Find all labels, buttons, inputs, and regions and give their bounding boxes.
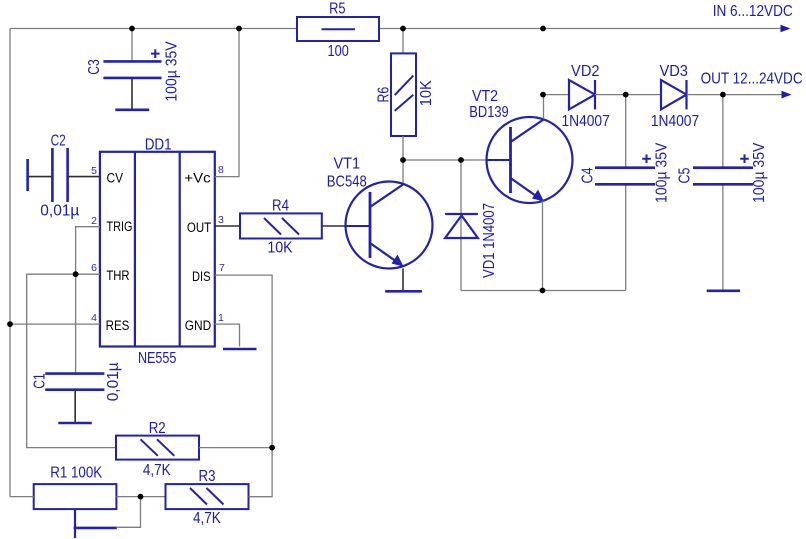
wire left rail	[9, 29, 11, 497]
wire GND	[215, 324, 240, 346]
svg-text:0,01µ: 0,01µ	[105, 362, 122, 401]
wire C5 bottom	[722, 184, 724, 289]
wire THR	[27, 274, 116, 447]
ground C1	[58, 422, 92, 425]
capacitor C5	[677, 142, 769, 203]
wire node to VT2 base	[403, 159, 487, 161]
ground C2	[26, 159, 29, 191]
svg-text:VD3: VD3	[659, 63, 688, 80]
diode VD3 1N4007	[651, 63, 699, 130]
wire C5 top	[722, 95, 724, 168]
wire diode row seg1	[543, 94, 569, 96]
resistor R5	[297, 0, 379, 59]
node C4 top	[623, 92, 629, 98]
wire VT2 collector	[543, 95, 545, 119]
node TRIG-THR	[73, 271, 79, 277]
svg-text:R6: R6	[376, 87, 393, 103]
svg-text:C5: C5	[677, 167, 694, 183]
node VD1 top	[458, 157, 464, 163]
wire R1 left	[10, 496, 34, 498]
svg-text:6: 6	[91, 262, 97, 274]
svg-text:10K: 10K	[267, 240, 293, 257]
wire DIS	[215, 275, 272, 497]
transistor Q1 VT1 BC548	[327, 155, 433, 268]
svg-text:7: 7	[219, 262, 225, 274]
wire VT2 emitter	[542, 201, 544, 291]
wire +Vc to top rail	[215, 29, 239, 177]
svg-text:100µ 35V: 100µ 35V	[164, 41, 181, 102]
svg-text:R2: R2	[149, 420, 166, 437]
svg-text:1N4007: 1N4007	[561, 113, 609, 130]
wire R4 to VT1 base	[322, 225, 346, 227]
diode VD1 1N4007	[445, 203, 498, 278]
capacitor C4	[580, 142, 671, 203]
svg-text:8: 8	[218, 164, 224, 176]
wire OUT to R4	[215, 225, 240, 227]
wire C4 bottom	[625, 184, 627, 290]
wire bottom rail	[461, 290, 626, 292]
wire R2 right	[199, 447, 272, 449]
svg-text:VD2: VD2	[571, 63, 600, 80]
wire C4 top	[625, 95, 627, 168]
svg-text:0,01µ: 0,01µ	[40, 203, 79, 220]
svg-text:BD139: BD139	[469, 104, 508, 121]
svg-text:1N4007: 1N4007	[651, 113, 699, 130]
svg-text:NE555: NE555	[138, 350, 177, 367]
wire VD1 vertical	[460, 160, 462, 291]
resistor R1 100K	[34, 465, 117, 539]
IC DD1 NE555	[100, 136, 215, 367]
node R1-R3	[138, 494, 144, 500]
svg-text:VT2: VT2	[472, 88, 498, 105]
wire R5 to R6	[402, 29, 404, 54]
resistor R2	[116, 420, 199, 479]
resistor R3	[166, 468, 249, 527]
svg-text:5: 5	[91, 165, 97, 177]
diode VD2 1N4007	[561, 63, 609, 130]
wire VT1 emitter	[402, 269, 404, 291]
node top-Vcc	[236, 26, 242, 32]
svg-text:BC548: BC548	[327, 174, 367, 191]
wire R1 wiper link	[117, 497, 141, 528]
svg-text:DIS: DIS	[192, 269, 211, 284]
node OUT arrow	[782, 91, 792, 99]
svg-text:CV: CV	[107, 171, 124, 186]
svg-text:OUT: OUT	[187, 220, 211, 235]
ground VT1 emitter	[385, 290, 422, 293]
svg-text:100: 100	[328, 43, 349, 60]
node top-R6	[400, 26, 406, 32]
svg-text:C2: C2	[51, 132, 66, 149]
svg-text:C1: C1	[31, 373, 48, 389]
wire R3 right	[249, 496, 273, 498]
wire diode row seg3	[687, 94, 784, 96]
svg-text:+Vc: +Vc	[184, 170, 210, 185]
node top-VT2	[540, 26, 546, 32]
node emitter bottom	[540, 288, 546, 294]
svg-text:THR: THR	[106, 268, 129, 283]
node R6-VT1-VT2	[400, 157, 406, 163]
svg-text:R5: R5	[329, 0, 345, 17]
node junction dots	[7, 26, 726, 500]
svg-text:100µ 35V: 100µ 35V	[653, 142, 670, 203]
svg-text:4,7K: 4,7K	[143, 462, 171, 479]
resistor R6	[376, 53, 435, 136]
wire top rail left	[10, 28, 297, 30]
capacitor C2	[29, 132, 100, 219]
capacitor C1	[31, 362, 121, 422]
svg-text:10K: 10K	[418, 80, 435, 106]
svg-text:2: 2	[91, 215, 97, 227]
svg-text:1: 1	[218, 312, 224, 324]
svg-text:R3: R3	[199, 468, 216, 485]
wire C1 top	[75, 274, 77, 373]
svg-text:VD1 1N4007: VD1 1N4007	[481, 203, 498, 278]
node C5 top	[720, 92, 726, 98]
svg-text:3: 3	[218, 214, 224, 226]
wire R1 to R3	[116, 496, 165, 498]
node IN arrow	[781, 25, 791, 33]
svg-text:VT1: VT1	[333, 155, 360, 172]
wire RES	[10, 323, 100, 325]
node R2-DIS	[269, 445, 275, 451]
svg-text:RES: RES	[106, 318, 130, 333]
ground GND pin	[223, 348, 257, 351]
wire diode row seg2	[595, 94, 661, 96]
svg-text:C4: C4	[580, 167, 597, 183]
wire top rail right	[379, 28, 782, 30]
svg-text:GND: GND	[185, 318, 212, 333]
ground C3	[115, 109, 149, 112]
wire VT1 collector	[402, 160, 404, 185]
wire TRIG	[76, 227, 100, 275]
node top-C3	[129, 26, 135, 32]
node RES rail	[7, 321, 13, 327]
resistor R4	[240, 198, 322, 257]
svg-text:C3: C3	[86, 59, 103, 75]
svg-text:R1 100K: R1 100K	[50, 465, 102, 482]
svg-text:4: 4	[91, 312, 97, 324]
svg-text:DD1: DD1	[145, 136, 172, 153]
ground C5	[707, 289, 740, 292]
svg-text:100µ 35V: 100µ 35V	[751, 142, 768, 203]
capacitor C3	[86, 29, 181, 110]
wire R6 bottom to node	[402, 136, 404, 160]
svg-text:OUT 12...24VDC: OUT 12...24VDC	[701, 70, 803, 87]
transistor Q2 VT2 BD139	[469, 88, 572, 203]
svg-text:TRIG: TRIG	[107, 219, 133, 234]
node diode row left	[540, 92, 546, 98]
svg-text:4,7K: 4,7K	[193, 510, 221, 527]
svg-text:R4: R4	[272, 198, 289, 215]
svg-text:IN 6...12VDC: IN 6...12VDC	[713, 3, 793, 20]
